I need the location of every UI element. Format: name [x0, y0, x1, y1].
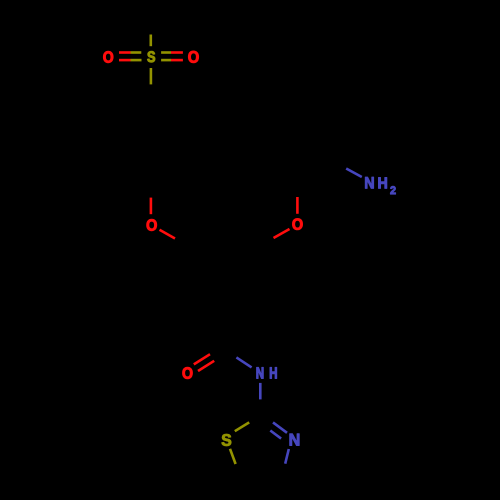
label right ether O [293, 219, 303, 230]
C=O carbonyl double bond line 1 (O half) [194, 354, 210, 364]
S=O left double bond lower line, olive S half [131, 59, 142, 62]
label sulfonyl S [147, 51, 155, 62]
C-N amide bond (N half) [236, 357, 251, 367]
label left ether O [147, 219, 157, 230]
S=O left double bond lower line, red O half [119, 59, 131, 62]
methyl C-S bond (S half, above S) [150, 35, 153, 47]
label sulfonyl O left [103, 51, 113, 62]
S=O right double bond lower line, olive S half [161, 59, 171, 62]
label thiazole N [290, 434, 300, 446]
S=O right double bond upper line, red O half [171, 51, 183, 54]
S-CH2 bond (S half, below S) [150, 68, 153, 84]
label NH2 subscript 2 [390, 186, 395, 194]
CH2-O bond (O half, above right ether O) [296, 197, 299, 214]
thiazole S1-C2 bond (S half) [235, 422, 249, 431]
label NH2 H [379, 178, 387, 189]
N-C2 bond (N half, below amide NH) [259, 383, 262, 400]
thiazole C2=N3 double bond line 2 (N half) [270, 431, 281, 439]
S=O right double bond upper line, olive S half [161, 51, 171, 54]
label amide N [257, 367, 264, 378]
CH2-O bond (O half, above left ether O) [150, 198, 153, 215]
thiazole S1-C5 bond (S half) [230, 449, 236, 464]
C=O carbonyl double bond line 2 (O half) [198, 361, 214, 371]
label NH2 N [365, 177, 373, 188]
thiazole N3-C4 bond (N half) [285, 449, 289, 464]
label thiazole S [222, 434, 231, 446]
S=O left double bond upper line, red O half [119, 51, 131, 54]
CH2-NH2 bond (N half) [346, 169, 362, 178]
thiazole C2=N3 double bond line 1 (N half) [273, 422, 287, 432]
label amide H [270, 367, 277, 378]
S=O right double bond lower line, red O half [171, 59, 183, 62]
S=O left double bond upper line, olive S half [131, 51, 142, 54]
label carbonyl O [183, 367, 193, 379]
O-ring bond (O half, right ether O to ring carbon) [274, 229, 290, 238]
O-ring bond (O half, left ether O to ring carbon) [160, 230, 176, 239]
label sulfonyl O right [188, 51, 198, 63]
